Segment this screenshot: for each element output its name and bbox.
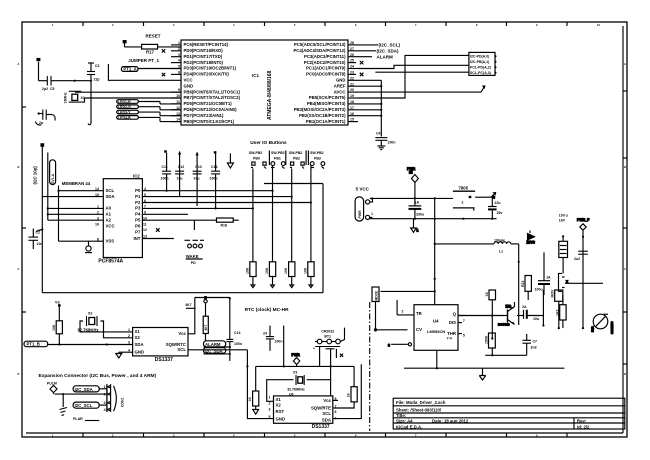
svg-text:15: 15 bbox=[350, 118, 354, 122]
resistor R27 top bbox=[485, 290, 496, 340]
resistor R23 bbox=[556, 295, 567, 328]
svg-text:RESET: RESET bbox=[146, 34, 161, 39]
wire battery down2 bbox=[330, 349, 332, 380]
svg-text:16: 16 bbox=[350, 112, 354, 116]
wire power top rail bbox=[370, 197, 453, 199]
svg-text:ALARM: ALARM bbox=[377, 55, 393, 60]
wire connector row4 bbox=[375, 71, 469, 73]
svg-text:100n: 100n bbox=[210, 177, 218, 181]
wire (I2C_SCL) net from pin28 bbox=[358, 43, 401, 48]
svg-text:4: 4 bbox=[104, 408, 106, 412]
wire right power vertical bbox=[518, 244, 520, 325]
wire power bottom rail bbox=[370, 218, 497, 220]
svg-text:PD6(PCINT22/OC0A/AIN0): PD6(PCINT22/OC0A/AIN0) bbox=[184, 107, 238, 112]
svg-text:23: 23 bbox=[350, 71, 354, 75]
dash-dot section divider bbox=[369, 302, 371, 431]
svg-text:Rev:: Rev: bbox=[577, 418, 587, 423]
svg-text:RST: RST bbox=[276, 409, 285, 414]
svg-text:C12: C12 bbox=[178, 165, 184, 169]
svg-text:B: B bbox=[624, 165, 626, 169]
svg-text:20: 20 bbox=[350, 88, 354, 92]
svg-text:1: 1 bbox=[371, 212, 373, 216]
svg-text:DS1337: DS1337 bbox=[155, 357, 173, 363]
wire switch col1 bbox=[252, 169, 254, 262]
wire CV from label bbox=[374, 302, 407, 331]
svg-text:4K7: 4K7 bbox=[185, 303, 191, 307]
capacitor C5 bbox=[39, 76, 92, 91]
capacitor C6 330u bbox=[409, 198, 424, 218]
svg-text:Id: 2/2: Id: 2/2 bbox=[577, 424, 590, 429]
svg-text:PD2(PCINT18/INT0): PD2(PCINT18/INT0) bbox=[184, 60, 224, 65]
ground circle symbol bbox=[85, 241, 92, 252]
global label LED1 bbox=[117, 100, 181, 104]
svg-text:2: 2 bbox=[104, 392, 106, 396]
frame zone ticks bottom bbox=[83, 433, 567, 437]
svg-text:PD5(PCINT21/OC0B/T1): PD5(PCINT21/OC0B/T1) bbox=[184, 101, 233, 106]
svg-text:TR: TR bbox=[416, 311, 423, 316]
global label LED3 bbox=[117, 110, 181, 115]
svg-text:PB3: PB3 bbox=[314, 157, 321, 161]
capacitor C10 left bbox=[28, 228, 43, 249]
svg-text:PWR_F: PWR_F bbox=[577, 218, 590, 222]
vertical wire cap C12 bbox=[179, 152, 181, 197]
svg-text:LED3-Y: LED3-Y bbox=[118, 111, 131, 115]
ground arrow power bbox=[411, 219, 419, 233]
wire pin17 bbox=[358, 109, 381, 111]
svg-text:CON1: CON1 bbox=[121, 398, 125, 408]
switch SW1 symbol bbox=[251, 162, 266, 169]
svg-text:CR2032: CR2032 bbox=[321, 329, 334, 333]
svg-text:PB0: PB0 bbox=[253, 157, 260, 161]
svg-text:10u: 10u bbox=[194, 177, 200, 181]
svg-text:D: D bbox=[18, 372, 20, 376]
svg-text:11: 11 bbox=[143, 222, 147, 226]
svg-text:LED2-G: LED2-G bbox=[118, 105, 131, 109]
svg-text:PB7(PCINT7/XTAL2/TOSC2): PB7(PCINT7/XTAL2/TOSC2) bbox=[184, 95, 241, 100]
svg-text:C13: C13 bbox=[195, 165, 201, 169]
connector SV1 bracket bbox=[50, 160, 56, 185]
svg-text:16MHz: 16MHz bbox=[64, 92, 68, 103]
svg-text:GND: GND bbox=[276, 416, 286, 421]
resistor R24 bbox=[551, 289, 563, 329]
resistor R1 reset pullup bbox=[125, 44, 182, 54]
svg-text:X2: X2 bbox=[276, 403, 282, 408]
svg-text:7: 7 bbox=[463, 319, 465, 323]
svg-text:7: 7 bbox=[335, 405, 337, 409]
svg-text:BT1: BT1 bbox=[324, 335, 331, 339]
ground symbol under C4 bbox=[377, 146, 385, 150]
svg-text:Title:: Title: bbox=[396, 413, 407, 418]
capacitor C15 out bbox=[488, 196, 502, 219]
svg-text:PB3(MOSI/OC2A/PCINT3): PB3(MOSI/OC2A/PCINT3) bbox=[294, 107, 346, 112]
switch SW2 symbol bbox=[271, 162, 285, 169]
wire XTAL1 bbox=[75, 91, 181, 93]
jumper pads WAKE bbox=[185, 240, 205, 265]
switch SW3 labels bbox=[289, 151, 303, 160]
svg-text:PCF8574A: PCF8574A bbox=[98, 259, 123, 265]
svg-text:Z5V6: Z5V6 bbox=[527, 241, 535, 245]
svg-text:1: 1 bbox=[269, 396, 271, 400]
frame zone ticks right bbox=[623, 91, 627, 364]
wire P4 row bbox=[142, 213, 188, 215]
capacitor C7 bbox=[522, 334, 537, 355]
global label oval ALARM bbox=[204, 341, 232, 347]
svg-text:27: 27 bbox=[350, 47, 354, 51]
wire X3 left to IC4 bbox=[267, 380, 294, 402]
svg-text:Expansion Connector (I2C Bus,: Expansion Connector (I2C Bus, Power , an… bbox=[39, 373, 157, 379]
svg-text:25: 25 bbox=[350, 59, 354, 63]
global label oval I2C_SCL exp bbox=[73, 402, 107, 408]
wire sqw down bbox=[283, 326, 285, 367]
svg-text:L1: L1 bbox=[499, 250, 503, 254]
svg-text:100uH: 100uH bbox=[494, 239, 505, 243]
wire loop left battery bbox=[255, 366, 257, 391]
IC1 right pin stubs bbox=[348, 45, 358, 122]
IC1 right pin labels bbox=[293, 42, 346, 124]
svg-text:3: 3 bbox=[128, 341, 130, 345]
svg-text:100n: 100n bbox=[161, 177, 169, 181]
svg-text:PWR: PWR bbox=[358, 210, 362, 219]
resistor R28 bbox=[485, 333, 496, 356]
power flag VS rtc bbox=[55, 301, 61, 321]
crystal X3 32.768KHz bbox=[287, 371, 305, 392]
svg-text:2: 2 bbox=[178, 47, 180, 51]
label 100u 16V bbox=[558, 213, 568, 222]
svg-text:22u: 22u bbox=[495, 201, 501, 205]
wire X2 to IC3 bbox=[80, 321, 133, 332]
svg-text:RV1: RV1 bbox=[591, 326, 595, 332]
wire battery down3 bbox=[335, 349, 337, 358]
svg-text:R18: R18 bbox=[221, 224, 227, 228]
svg-text:I2C-PD(A,0): I2C-PD(A,0) bbox=[470, 55, 489, 59]
svg-text:24: 24 bbox=[263, 332, 267, 336]
resistor R6 pulldown col4 bbox=[303, 262, 314, 288]
no-connect X pin23 bbox=[360, 73, 364, 77]
svg-text:ATMEGA-8/48/88/168: ATMEGA-8/48/88/168 bbox=[267, 70, 273, 120]
svg-text:3: 3 bbox=[178, 53, 180, 57]
svg-text:JUMPER PT_1: JUMPER PT_1 bbox=[128, 58, 159, 63]
wire SCL to IC2 bbox=[59, 190, 104, 192]
svg-text:4: 4 bbox=[128, 348, 130, 352]
wire A1 bbox=[48, 213, 104, 215]
connector X2 power input bbox=[355, 197, 373, 222]
svg-text:17: 17 bbox=[350, 106, 354, 110]
svg-text:4: 4 bbox=[335, 417, 337, 421]
resistor R22 bbox=[521, 276, 531, 301]
svg-text:2A: 2A bbox=[522, 305, 527, 309]
svg-text:19: 19 bbox=[350, 94, 354, 98]
power diamond pwm bbox=[50, 385, 57, 394]
svg-text:DS1337: DS1337 bbox=[312, 424, 330, 430]
svg-text:2: 2 bbox=[97, 211, 99, 215]
svg-text:B: B bbox=[18, 165, 20, 169]
svg-text:7805: 7805 bbox=[459, 186, 469, 191]
svg-text:A0: A0 bbox=[106, 206, 112, 211]
global label oval I2C_SDA bbox=[204, 348, 232, 354]
svg-text:25v: 25v bbox=[497, 211, 503, 215]
op IC4 DS1337 rtc bbox=[269, 396, 337, 431]
wire pin21 bbox=[358, 85, 381, 87]
capacitor C8 bbox=[535, 252, 551, 295]
svg-text:PD3(PCINT19/OC2B/INT1): PD3(PCINT19/OC2B/INT1) bbox=[184, 66, 237, 71]
svg-text:PB1: PB1 bbox=[274, 157, 281, 161]
IC1 right pin numbers bbox=[350, 41, 354, 122]
capacitor C15 rtc bbox=[226, 297, 242, 361]
wire rtc int down bbox=[246, 350, 248, 367]
svg-text:1: 1 bbox=[104, 385, 106, 389]
svg-text:15: 15 bbox=[95, 193, 99, 197]
resistor R3 pulldown col1 bbox=[246, 262, 257, 288]
resistor R4 pulldown col2 bbox=[265, 262, 276, 288]
regulator U2 7805 bbox=[453, 186, 491, 211]
svg-text:10u: 10u bbox=[177, 177, 183, 181]
connector bracket right bbox=[559, 273, 569, 291]
svg-text:I2C_SDA: I2C_SDA bbox=[75, 387, 93, 392]
svg-text:SV1-A: SV1-A bbox=[51, 173, 55, 184]
svg-text:1: 1 bbox=[417, 229, 419, 233]
svg-text:21: 21 bbox=[350, 82, 354, 86]
svg-text:A: A bbox=[624, 62, 626, 66]
switch separators bbox=[269, 151, 308, 166]
svg-text:WAKE: WAKE bbox=[186, 254, 199, 259]
resistor R18 on P5 row bbox=[142, 218, 238, 230]
wire pin20 long to VCC arrow bbox=[358, 91, 481, 93]
svg-text:C14: C14 bbox=[211, 165, 217, 169]
svg-text:I2C-PB(A,1): I2C-PB(A,1) bbox=[470, 60, 489, 64]
svg-text:C: C bbox=[18, 267, 20, 271]
wire XTAL2 bbox=[81, 98, 181, 102]
global label oval I2C_SDA exp bbox=[73, 386, 107, 392]
svg-text:GND: GND bbox=[184, 83, 194, 88]
svg-text:16V: 16V bbox=[559, 219, 566, 223]
label P_BAR bbox=[73, 417, 99, 421]
svg-text:PCL-PD(A,2): PCL-PD(A,2) bbox=[470, 66, 491, 70]
resistor R25 rtc pullup bbox=[203, 303, 208, 341]
vertical wire bus v2 bbox=[47, 153, 49, 221]
svg-text:14: 14 bbox=[95, 187, 99, 191]
wire PT1_B long bbox=[48, 344, 133, 346]
op IC5 LM555CN timer bbox=[402, 305, 459, 351]
vertical wire bus v1 bbox=[41, 147, 43, 293]
vertical wire cap C13 bbox=[196, 152, 198, 206]
wire IC4 vcc stub bbox=[333, 399, 338, 401]
no-connect X pin2 bbox=[162, 49, 165, 52]
svg-text:5: 5 bbox=[463, 334, 465, 338]
wire pin18 bbox=[358, 103, 381, 105]
wire 555 vcc top bbox=[381, 290, 435, 292]
power flag top of I2C vertical bbox=[41, 144, 44, 146]
svg-text:PB4(MISO/PCINT4): PB4(MISO/PCINT4) bbox=[307, 101, 346, 106]
svg-text:PD0(PCINT16/RXD): PD0(PCINT16/RXD) bbox=[184, 48, 224, 53]
svg-text:LED4-B: LED4-B bbox=[118, 116, 131, 120]
global label PT1_B bbox=[24, 341, 48, 347]
svg-text:7-4: 7-4 bbox=[447, 336, 452, 340]
svg-text:Date: 18 aug 2012: Date: 18 aug 2012 bbox=[432, 418, 469, 423]
svg-text:PWR: PWR bbox=[292, 353, 301, 357]
wire P0 row to col2 bbox=[142, 190, 272, 192]
svg-text:SDA: SDA bbox=[135, 342, 144, 347]
capacitor C14 stubs bbox=[215, 154, 217, 209]
svg-text:3: 3 bbox=[97, 216, 99, 220]
resistor R20 battery bbox=[248, 391, 259, 414]
svg-text:P3: P3 bbox=[135, 206, 141, 211]
svg-text:24: 24 bbox=[350, 65, 354, 69]
svg-text:22: 22 bbox=[350, 76, 354, 80]
svg-text:100n: 100n bbox=[234, 342, 242, 346]
wire X3 right to IC4 bbox=[307, 380, 331, 396]
no-connect X pin6 bbox=[162, 73, 165, 76]
svg-text:SW-PB2: SW-PB2 bbox=[249, 151, 263, 155]
resistor R19 rtc pullup bbox=[52, 321, 62, 345]
svg-text:C4: C4 bbox=[376, 132, 381, 136]
svg-text:R17: R17 bbox=[146, 49, 154, 54]
wire pin16 bbox=[358, 115, 381, 117]
svg-text:P1: P1 bbox=[135, 194, 141, 199]
svg-text:SQW/RTC: SQW/RTC bbox=[166, 342, 186, 347]
svg-text:1K: 1K bbox=[485, 292, 489, 297]
wire IC3 SCL right bbox=[188, 349, 247, 351]
svg-text:2: 2 bbox=[128, 334, 130, 338]
power diamond PWR_FLAG right bbox=[577, 218, 590, 328]
op IC3 DS1337 bbox=[128, 328, 188, 363]
svg-text:RTC (clock) MC-HR: RTC (clock) MC-HR bbox=[245, 307, 290, 313]
capacitor C16 rtc bbox=[263, 326, 282, 351]
svg-text:Size: A4: Size: A4 bbox=[396, 418, 413, 423]
ground arrow 555 bbox=[479, 368, 485, 380]
switch SW4 symbol bbox=[310, 162, 324, 169]
svg-text:LM555CN: LM555CN bbox=[427, 329, 445, 334]
wire A2 bbox=[48, 219, 104, 221]
svg-text:PB2(SS/OC1B/PCINT2): PB2(SS/OC1B/PCINT2) bbox=[299, 113, 346, 118]
no-connect X pin25 bbox=[360, 61, 364, 65]
sheet frame inner bottom line bbox=[26, 432, 623, 434]
svg-text:1: 1 bbox=[97, 205, 99, 209]
svg-text:X2: X2 bbox=[135, 335, 141, 340]
svg-text:X2: X2 bbox=[88, 312, 92, 316]
svg-text:SW-PB2: SW-PB2 bbox=[310, 151, 324, 155]
IC1 left pin labels bbox=[184, 42, 241, 124]
global label LED4 bbox=[117, 116, 181, 122]
svg-text:VS: VS bbox=[55, 301, 60, 305]
resistor R5 pulldown col3 bbox=[284, 262, 295, 288]
switch SW3 symbol bbox=[290, 162, 304, 169]
wire 555 R pin bbox=[388, 343, 412, 348]
svg-text:PB2: PB2 bbox=[293, 157, 300, 161]
svg-text:A1: A1 bbox=[106, 212, 112, 217]
svg-text:ALARM: ALARM bbox=[205, 342, 221, 347]
svg-text:C5: C5 bbox=[50, 87, 55, 91]
svg-text:BC546B: BC546B bbox=[498, 323, 510, 327]
svg-text:P5: P5 bbox=[135, 218, 141, 223]
svg-text:PB0(PCINT0/CLKO/ICP1): PB0(PCINT0/CLKO/ICP1) bbox=[184, 119, 235, 124]
switch SW4 labels bbox=[310, 151, 324, 160]
svg-text:PD: PD bbox=[191, 261, 196, 265]
svg-text:A2: A2 bbox=[106, 218, 112, 223]
op IC2 PCF8574A i2c expander bbox=[95, 174, 147, 265]
switch SW2 labels bbox=[271, 151, 285, 160]
svg-text:10K: 10K bbox=[52, 324, 56, 331]
svg-text:IC1: IC1 bbox=[252, 73, 260, 78]
wire Q output bbox=[458, 315, 504, 317]
vertical AVCC bus bbox=[380, 80, 382, 136]
svg-text:100n: 100n bbox=[388, 141, 396, 145]
power flag square cap rail right bbox=[214, 151, 217, 153]
svg-text:GND: GND bbox=[135, 349, 145, 354]
svg-text:10K: 10K bbox=[246, 267, 250, 274]
IC1 left pin numbers bbox=[176, 41, 180, 122]
vertical wire bus v3 bbox=[58, 186, 60, 242]
svg-text:2p: 2p bbox=[39, 121, 43, 125]
global label LED2 bbox=[117, 105, 181, 110]
resistor R21 battery bbox=[333, 387, 357, 408]
svg-text:SQW/RTE: SQW/RTE bbox=[311, 406, 331, 411]
power diamond battery bbox=[292, 353, 301, 366]
svg-text:D: D bbox=[624, 372, 626, 376]
wire bottom rail 555 bbox=[404, 367, 564, 369]
svg-text:4: 4 bbox=[178, 59, 180, 63]
svg-text:User IO Buttons: User IO Buttons bbox=[250, 140, 287, 146]
wire IC4 gnd feed bbox=[247, 366, 273, 418]
ground arrow rtc bbox=[116, 352, 133, 358]
svg-text:MOV: MOV bbox=[551, 289, 555, 298]
wire (I2C_SDA) net from pin27 bbox=[358, 49, 399, 54]
wire pin19 to connector row1 bbox=[358, 55, 469, 98]
svg-text:DIS: DIS bbox=[449, 320, 456, 325]
svg-text:MEMBRAN 44: MEMBRAN 44 bbox=[62, 181, 91, 186]
svg-text:PT1_A: PT1_A bbox=[123, 67, 136, 72]
inductor L1 100uH bbox=[435, 239, 519, 254]
svg-text:10K: 10K bbox=[284, 267, 288, 274]
svg-text:PD1(PCINT17/TXD): PD1(PCINT17/TXD) bbox=[184, 54, 223, 59]
junction node bbox=[90, 80, 92, 82]
svg-text:PT1_B: PT1_B bbox=[27, 342, 40, 347]
wire pin24 to connector row3 bbox=[358, 65, 469, 68]
svg-text:P7: P7 bbox=[135, 229, 141, 234]
svg-text:3: 3 bbox=[269, 408, 271, 412]
power flag VCC at reset pullup bbox=[123, 41, 126, 47]
title block bbox=[393, 398, 625, 429]
power diamond D9 bbox=[407, 167, 418, 198]
svg-text:2: 2 bbox=[402, 310, 404, 314]
svg-text:5 VCC: 5 VCC bbox=[356, 187, 370, 192]
svg-text:PLAR: PLAR bbox=[73, 417, 83, 421]
svg-text:VCC: VCC bbox=[106, 223, 115, 228]
svg-text:INT: INT bbox=[133, 236, 140, 241]
svg-text:10K: 10K bbox=[303, 267, 307, 274]
svg-text:2: 2 bbox=[269, 402, 271, 406]
svg-text:LED1-R: LED1-R bbox=[118, 100, 131, 104]
svg-text:SW-PB2: SW-PB2 bbox=[271, 151, 285, 155]
wire VCC pin7 bbox=[108, 64, 181, 80]
svg-text:P0: P0 bbox=[135, 188, 141, 193]
svg-text:Sheet: /Sheet-093/110/: Sheet: /Sheet-093/110/ bbox=[396, 407, 442, 412]
crystal X2 32.768KHz bbox=[77, 312, 99, 333]
svg-text:(I2C_SCL): (I2C_SCL) bbox=[379, 43, 401, 48]
svg-text:(I2C 10p): (I2C 10p) bbox=[33, 166, 38, 185]
svg-text:THR: THR bbox=[447, 331, 457, 336]
wire rail right section bbox=[565, 282, 603, 284]
connector box ISP labels bbox=[469, 52, 496, 75]
junction node bbox=[74, 80, 76, 82]
svg-text:VCC: VCC bbox=[184, 78, 193, 83]
svg-text:C: C bbox=[624, 267, 626, 271]
capacitor C11 stubs bbox=[166, 153, 168, 191]
svg-text:SCL: SCL bbox=[177, 347, 186, 352]
capacitor C3 bbox=[87, 63, 100, 125]
wire P2 row to col4 bbox=[142, 202, 311, 204]
svg-text:SCL-PC(A,3): SCL-PC(A,3) bbox=[470, 71, 491, 75]
capacitor C14 bbox=[210, 165, 221, 181]
